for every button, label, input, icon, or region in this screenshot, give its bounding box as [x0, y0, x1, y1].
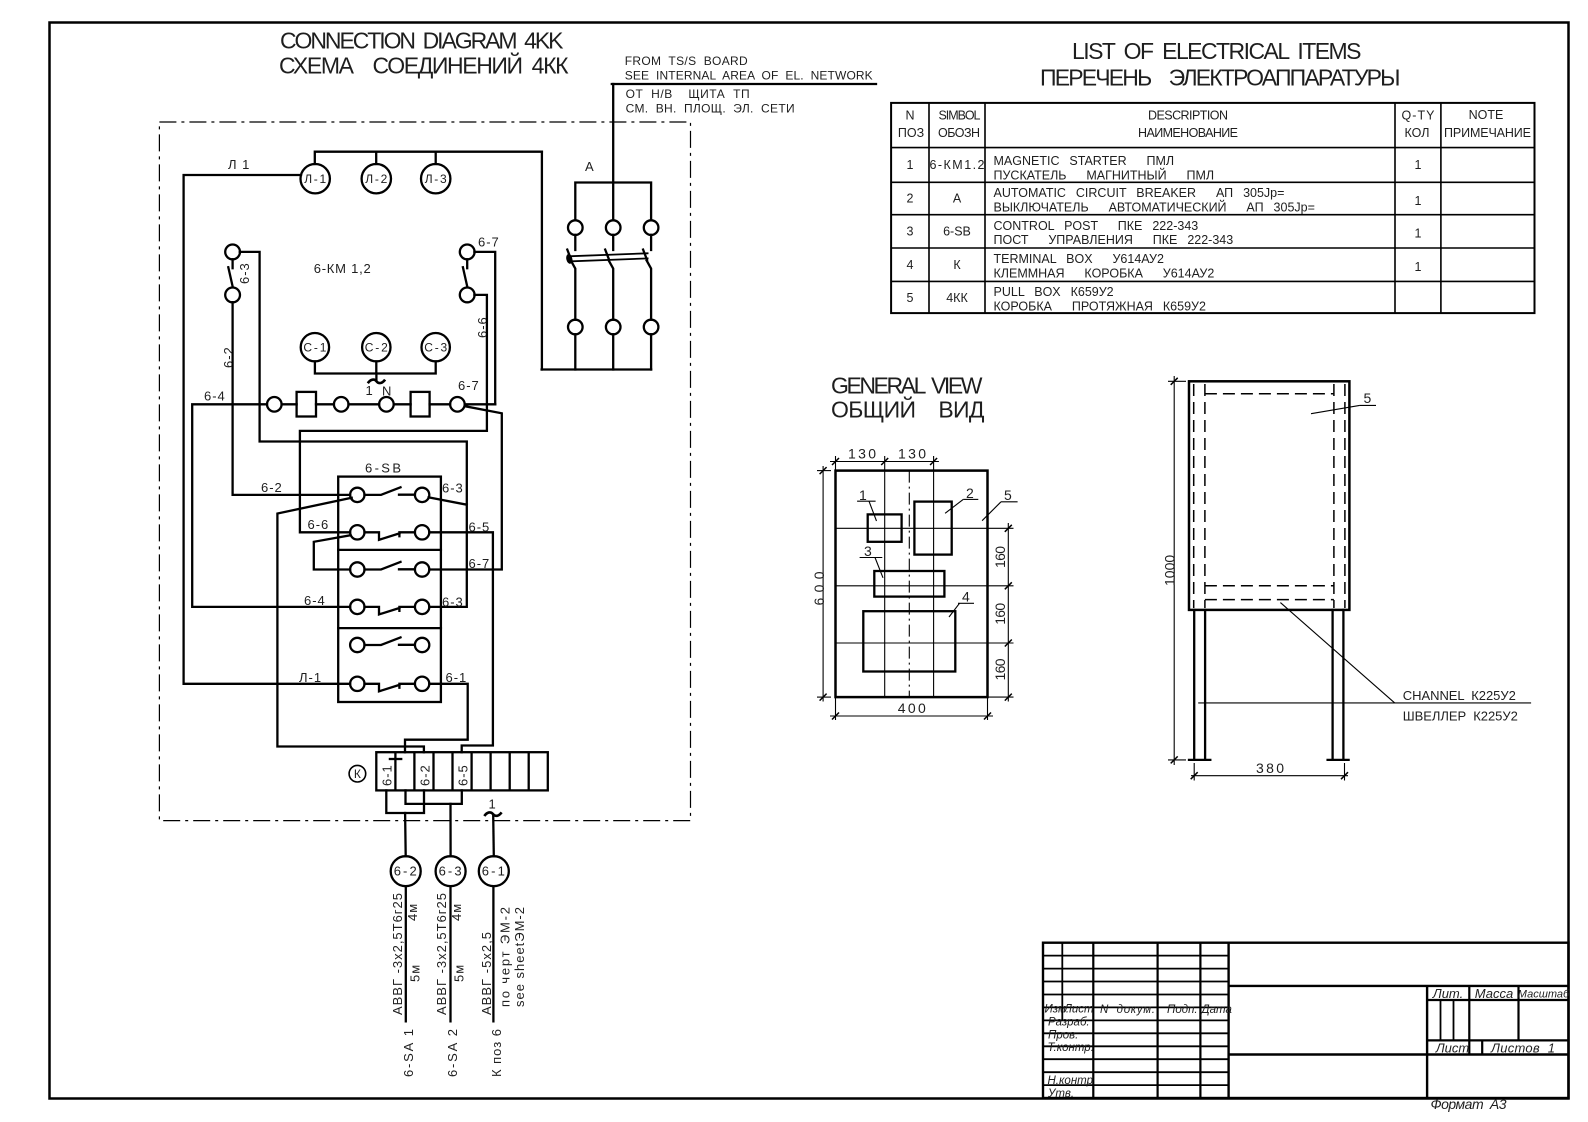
svg-text:1: 1	[859, 487, 867, 503]
label terminal 6-2 rotated	[418, 764, 433, 786]
svg-text:ПРИМЕЧАНИЕ: ПРИМЕЧАНИЕ	[1444, 126, 1531, 140]
svg-text:6-1: 6-1	[380, 764, 395, 786]
cable 3 spec label	[479, 931, 494, 1015]
svg-text:АВВГ -5х2,5: АВВГ -5х2,5	[479, 931, 494, 1015]
cable tail 6-2	[405, 886, 407, 1021]
label 6-2 row1	[261, 480, 283, 495]
SB row2 contact	[350, 525, 429, 540]
centerline vertical 2	[933, 456, 935, 697]
label 6-3 row1	[442, 481, 464, 496]
wire Л-1 to control post row 6	[184, 175, 351, 684]
svg-text:1: 1	[366, 383, 374, 398]
svg-text:Т.контр.: Т.контр.	[1048, 1042, 1094, 1054]
destination label 6-SA 2	[445, 1028, 460, 1077]
svg-text:4м: 4м	[449, 903, 464, 921]
SB row5 contact	[350, 637, 429, 652]
cable tail 6-1	[492, 886, 494, 1021]
SB row3 contact	[350, 562, 429, 577]
svg-text:6-SB: 6-SB	[365, 461, 402, 476]
svg-text:К: К	[354, 767, 361, 781]
svg-text:ПУСКАТЕЛЬ МАГНИТНЫЙ ПМЛ: ПУСКАТЕЛЬ МАГНИТНЫЙ ПМЛ	[994, 168, 1215, 183]
svg-text:A: A	[585, 159, 595, 174]
svg-text:6-2: 6-2	[394, 864, 418, 879]
dimension 1000	[1162, 376, 1187, 765]
destination label 6-SA 1	[401, 1028, 416, 1077]
channel leg right	[1328, 610, 1349, 760]
cable drop to 6-2	[404, 813, 407, 856]
svg-text:NOTE: NOTE	[1469, 108, 1504, 122]
wire seg	[394, 403, 411, 405]
starter terminal 2	[334, 397, 349, 412]
wire jumper cells 1-3 below box	[386, 790, 424, 813]
svg-text:4м: 4м	[405, 903, 420, 921]
svg-text:КОРОБКА ПРОТЯЖНАЯ К659У2: КОРОБКА ПРОТЯЖНАЯ К659У2	[994, 299, 1206, 313]
cable 2 spec label	[434, 892, 449, 1015]
cable 3 note line 2	[512, 906, 527, 1007]
dimension 600	[811, 466, 831, 702]
svg-text:6-3: 6-3	[439, 864, 463, 879]
svg-text:6-2: 6-2	[418, 764, 433, 786]
svg-text:ПОСТ УПРАВЛЕНИЯ ПКЕ 222: ПОСТ УПРАВЛЕНИЯ ПКЕ 222-343	[994, 233, 1234, 247]
terminal Л-3	[421, 164, 450, 193]
svg-text:6-КМ 1,2: 6-КМ 1,2	[314, 261, 372, 276]
device box 2	[914, 502, 951, 555]
centerline vertical middle dash-dot	[908, 471, 910, 697]
wire jumper SB row2-row3 left pins	[314, 535, 351, 569]
svg-text:Разраб.: Разраб.	[1048, 1017, 1090, 1029]
callout 1	[857, 487, 876, 521]
cable circle 6-1	[479, 856, 509, 886]
wire seg to 6-7 riser	[465, 403, 496, 405]
svg-text:PULL BOX К659У2: PULL BOX К659У2	[994, 285, 1114, 299]
wire 6-7 drop to SB row3 right pin	[429, 406, 502, 569]
label terminal 6-1 rotated	[380, 764, 395, 786]
wire bus above Л terminals	[315, 152, 542, 164]
wire 6-7: КМ contact to starter terminal 6	[474, 252, 495, 404]
svg-text:FROM TS/S BOARD: FROM TS/S BOARD	[625, 54, 748, 68]
svg-text:Л-2: Л-2	[365, 172, 387, 186]
centerline horizontal 1	[836, 527, 1014, 529]
svg-text:400: 400	[898, 700, 926, 716]
cabinet front outline	[836, 471, 988, 697]
svg-text:4: 4	[962, 589, 970, 605]
circuit breaker A label	[585, 159, 595, 174]
wire 6-2 net: КМ contact bottom to SB row1 left pin	[233, 302, 351, 495]
svg-text:АВВГ -3х2,5Т6г25: АВВГ -3х2,5Т6г25	[390, 892, 405, 1015]
cable circle 6-2	[391, 856, 421, 886]
svg-text:ОТ Н/В ЩИТА ТП: ОТ Н/В ЩИТА ТП	[626, 87, 750, 101]
node 1 label	[366, 383, 374, 398]
node Л 1 label	[228, 157, 250, 172]
svg-text:6-2: 6-2	[261, 480, 283, 495]
svg-text:AUTOMATIC CIRCUIT BREAKER: AUTOMATIC CIRCUIT BREAKER АП 305Jр=	[994, 186, 1285, 200]
svg-text:5: 5	[907, 291, 914, 305]
svg-text:6-5: 6-5	[456, 764, 471, 786]
wire seg	[282, 403, 297, 405]
svg-text:А: А	[953, 192, 962, 206]
svg-text:НАИМЕНОВАНИЕ: НАИМЕНОВАНИЕ	[1138, 126, 1238, 140]
svg-text:1: 1	[1415, 158, 1422, 172]
svg-text:N докум.: N докум.	[1100, 1004, 1155, 1016]
callout 3	[860, 543, 883, 578]
destination label К поз 6	[489, 1028, 504, 1077]
device box 4	[863, 611, 955, 671]
svg-text:ПЕРЕЧЕНЬ ЭЛЕКТРОАППАРАТУРЫ: ПЕРЕЧЕНЬ ЭЛЕКТРОАППАРАТУРЫ	[1040, 65, 1401, 91]
svg-text:ШВЕЛЛЕР К225У2: ШВЕЛЛЕР К225У2	[1403, 709, 1519, 724]
label Л-1 row6	[299, 670, 322, 685]
cabinet side outline	[1189, 381, 1349, 610]
wire seg	[430, 403, 451, 405]
svg-text:2: 2	[966, 485, 974, 501]
SECTION: general view front	[811, 376, 1531, 781]
svg-text:Дата: Дата	[1200, 1004, 1232, 1016]
wire 6-1 from SB row6 right pin to terminal box	[405, 684, 468, 752]
svg-text:4КК: 4КК	[946, 291, 968, 305]
svg-text:ВЫКЛЮЧАТЕЛЬ АВТОМАТИЧЕСКИЙ: ВЫКЛЮЧАТЕЛЬ АВТОМАТИЧЕСКИЙ АП 305Jр=	[994, 199, 1315, 214]
dimension 400	[830, 697, 993, 720]
wire bus below С terminals	[315, 361, 436, 373]
svg-text:5м: 5м	[452, 964, 467, 982]
svg-text:1: 1	[1415, 194, 1422, 208]
svg-text:К: К	[953, 258, 961, 272]
SECTION: list of electrical items table	[891, 103, 1534, 314]
channel leg left	[1189, 610, 1210, 760]
hidden channel legs inside cabinet (dashed)	[1194, 384, 1345, 608]
SECTION: titles	[279, 28, 1401, 423]
pull box 4KK boundary (dash-dot)	[159, 122, 690, 821]
dimension 130 first	[830, 445, 939, 470]
svg-text:Масштаб: Масштаб	[1518, 989, 1570, 1001]
label 6-7 above starter row	[458, 378, 480, 393]
svg-text:по черт ЭМ-2: по черт ЭМ-2	[498, 906, 513, 1007]
svg-text:SEE INTERNAL AREA OF EL.: SEE INTERNAL AREA OF EL. NETWORK	[625, 69, 873, 83]
svg-text:3: 3	[864, 543, 872, 559]
cable tail 6-3	[449, 886, 451, 1021]
device box 1	[868, 514, 902, 541]
starter terminal N	[379, 397, 394, 412]
starter terminal 6-7	[450, 397, 465, 412]
svg-text:СМ. ВН. ПЛОЩ. ЭЛ. СЕТИ: СМ. ВН. ПЛОЩ. ЭЛ. СЕТИ	[626, 102, 795, 116]
svg-text:6-7: 6-7	[458, 378, 480, 393]
svg-text:Утв.: Утв.	[1047, 1088, 1074, 1100]
label 6-1 row6	[446, 670, 468, 685]
svg-text:Лист: Лист	[1435, 1041, 1470, 1056]
svg-text:CHANNEL К225У2: CHANNEL К225У2	[1403, 688, 1517, 703]
svg-text:6-3: 6-3	[442, 481, 464, 496]
control post 6-SB box	[338, 477, 441, 702]
callout 2	[945, 485, 978, 514]
svg-text:КОЛ: КОЛ	[1405, 126, 1430, 140]
svg-text:Лист: Лист	[1063, 1004, 1094, 1016]
svg-text:130: 130	[898, 445, 926, 461]
svg-text:Л-3: Л-3	[425, 172, 447, 186]
wire 6-5 from SB row2 right pin to terminal box	[429, 532, 493, 752]
svg-text:GENERAL VIEW: GENERAL VIEW	[831, 373, 983, 399]
svg-text:6-3: 6-3	[237, 262, 252, 284]
contact КМ left (6-3/6-2)	[225, 245, 240, 303]
label 6-4 row4	[304, 593, 326, 608]
svg-text:6-3: 6-3	[442, 595, 464, 610]
svg-text:5м: 5м	[408, 964, 423, 982]
leader CHANNEL К225У2	[1198, 603, 1531, 724]
label К circled	[349, 765, 366, 782]
callout 4	[949, 589, 974, 618]
svg-text:6-4: 6-4	[304, 593, 326, 608]
wire 6-2 from SB row1 left pin to terminal box cell 6-2	[277, 498, 424, 752]
label 6-2 rotated	[221, 346, 236, 368]
svg-text:600: 600	[811, 571, 827, 605]
svg-text:К поз 6: К поз 6	[489, 1028, 504, 1077]
label 6-SB	[365, 461, 402, 476]
svg-text:Формат А3: Формат А3	[1431, 1096, 1507, 1112]
svg-text:6-SA 1: 6-SA 1	[401, 1028, 416, 1077]
svg-text:see sheetЭМ-2: see sheetЭМ-2	[512, 906, 527, 1007]
svg-text:CONNECTION DIAGRAM 4KK: CONNECTION DIAGRAM 4KK	[280, 28, 564, 54]
SB row6 contact	[350, 677, 429, 692]
svg-text:1: 1	[907, 158, 914, 172]
wire Л1 from bus down to breaker A bottom	[541, 152, 543, 370]
svg-text:380: 380	[1256, 760, 1284, 776]
svg-text:3: 3	[907, 225, 914, 239]
svg-text:Л-1: Л-1	[304, 172, 326, 186]
svg-text:СХЕМА СОЕДИНЕНИЙ 4КК: СХЕМА СОЕДИНЕНИЙ 4КК	[279, 52, 569, 79]
node N label	[382, 384, 392, 399]
centerline vertical 1	[884, 456, 886, 697]
label 6-3 rotated at КМ contact	[237, 262, 252, 284]
svg-text:160: 160	[992, 603, 1008, 625]
svg-text:Пров.: Пров.	[1048, 1030, 1078, 1042]
svg-text:Подп.: Подп.	[1167, 1004, 1198, 1016]
svg-text:TERMINAL BOX У614АУ2: TERMINAL BOX У614АУ2	[994, 252, 1164, 266]
wire seg	[316, 403, 334, 405]
label 6-6 row2	[308, 517, 330, 532]
label 6-3 row4	[442, 595, 464, 610]
svg-text:160: 160	[992, 658, 1008, 680]
label 6-КМ1,2	[314, 261, 372, 276]
cable circle 6-3	[436, 856, 466, 886]
svg-text:ПОЗ: ПОЗ	[898, 126, 924, 140]
svg-text:1000: 1000	[1162, 555, 1178, 586]
svg-text:N: N	[905, 109, 914, 123]
cable 1 spec label	[390, 892, 405, 1015]
svg-text:С-3: С-3	[424, 341, 447, 355]
label 6-7 at КМ right contact	[478, 235, 500, 250]
svg-text:АВВГ -3х2,5Т6г25: АВВГ -3х2,5Т6г25	[434, 892, 449, 1015]
wire 6-6 net: КМ right bottom to SB row2 left pin	[300, 295, 487, 532]
svg-text:6-6: 6-6	[308, 517, 330, 532]
callout 5 front	[982, 487, 1018, 521]
svg-text:6-SB: 6-SB	[943, 225, 971, 239]
note FROM TS/S BOARD	[612, 54, 876, 116]
svg-text:1: 1	[489, 797, 497, 812]
node 1 break mark and label	[484, 797, 501, 857]
svg-text:С-2: С-2	[365, 341, 388, 355]
wire N stem with break mark	[368, 374, 385, 384]
svg-text:DESCRIPTION: DESCRIPTION	[1148, 109, 1228, 123]
dimension 160 x3	[988, 523, 1014, 702]
dimension 380	[1191, 760, 1348, 781]
cable drop to 6-3	[449, 804, 451, 856]
svg-text:160: 160	[992, 546, 1008, 568]
svg-text:6-7: 6-7	[469, 556, 491, 571]
svg-text:6-4: 6-4	[204, 389, 226, 404]
cable 3 note line 1	[498, 906, 513, 1007]
terminal Л-1	[301, 164, 330, 193]
svg-text:LIST OF ELECTRICAL ITEMS: LIST OF ELECTRICAL ITEMS	[1072, 38, 1362, 64]
svg-text:2: 2	[907, 192, 914, 206]
label 6-6 rotated	[475, 316, 490, 338]
svg-text:Л 1: Л 1	[228, 157, 250, 172]
starter coil box 2	[411, 392, 430, 417]
svg-text:CONTROL POST ПКЕ 222-343: CONTROL POST ПКЕ 222-343	[994, 219, 1199, 233]
starter coil box 1	[297, 392, 316, 417]
label 6-5 row2	[469, 520, 491, 535]
terminal box K	[376, 752, 548, 790]
svg-text:MAGNETIC STARTER ПМЛ: MAGNETIC STARTER ПМЛ	[994, 154, 1175, 168]
centerline horizontal 3	[836, 642, 1014, 644]
coil terminal С-3	[422, 333, 450, 361]
label terminal 6-5 rotated	[456, 764, 471, 786]
svg-text:SIMBOL: SIMBOL	[939, 109, 981, 123]
svg-text:Листов 1: Листов 1	[1490, 1041, 1555, 1056]
svg-text:4: 4	[907, 258, 914, 272]
svg-text:ОБЩИЙ ВИД: ОБЩИЙ ВИД	[831, 396, 985, 423]
svg-text:1: 1	[1415, 260, 1422, 274]
svg-text:5: 5	[1004, 487, 1012, 503]
coil terminal С-2	[362, 333, 390, 361]
svg-text:6-SA 2: 6-SA 2	[445, 1028, 460, 1077]
label 6-7 row3	[469, 556, 491, 571]
svg-text:Масса: Масса	[1475, 986, 1513, 1001]
starter terminal 1	[267, 397, 282, 412]
cable 1 length 5м	[408, 964, 423, 982]
wire 6-3 net: КМ contact to SB row1/row4 right pins	[240, 252, 467, 607]
svg-text:Q-TY: Q-TY	[1402, 109, 1436, 123]
svg-text:Н.контр: Н.контр	[1048, 1075, 1094, 1087]
wire seg	[349, 403, 380, 405]
centerline horizontal 2	[836, 585, 1014, 587]
svg-text:130: 130	[848, 445, 876, 461]
callout 5 side	[1311, 390, 1376, 414]
svg-text:5: 5	[1364, 390, 1372, 406]
wire jumper cells 2-5 below box	[406, 790, 462, 804]
wire supply feed from TS/S board to breaker A	[612, 84, 614, 220]
svg-text:КЛЕММНАЯ КОРОБКА У614АУ2: КЛЕММНАЯ КОРОБКА У614АУ2	[994, 266, 1215, 280]
svg-text:1: 1	[1415, 227, 1422, 241]
svg-text:6-1: 6-1	[482, 864, 506, 879]
terminal Л-2	[362, 164, 391, 193]
circuit breaker A	[542, 183, 659, 370]
SECTION: title block	[1043, 943, 1570, 1112]
svg-text:Л-1: Л-1	[299, 670, 322, 685]
coil terminal С-1	[301, 333, 329, 361]
cable 2 length 4м	[449, 903, 464, 921]
wire 6-4 net: starter row to SB row4 left pin	[192, 404, 350, 607]
svg-text:6-7: 6-7	[478, 235, 500, 250]
cable 1 length 4м	[405, 903, 420, 921]
device box 3	[874, 571, 944, 597]
SB row1 contact	[350, 487, 429, 502]
svg-text:ОБОЗН: ОБОЗН	[938, 126, 980, 140]
contact КМ right (6-7/6-6)	[460, 245, 475, 303]
cable 2 length 5м	[452, 964, 467, 982]
svg-text:Лит.: Лит.	[1432, 986, 1463, 1001]
svg-text:С-1: С-1	[303, 341, 326, 355]
SECTION: schematic	[159, 54, 876, 1077]
label 6-4	[204, 389, 226, 404]
SB row4 contact	[350, 600, 429, 615]
